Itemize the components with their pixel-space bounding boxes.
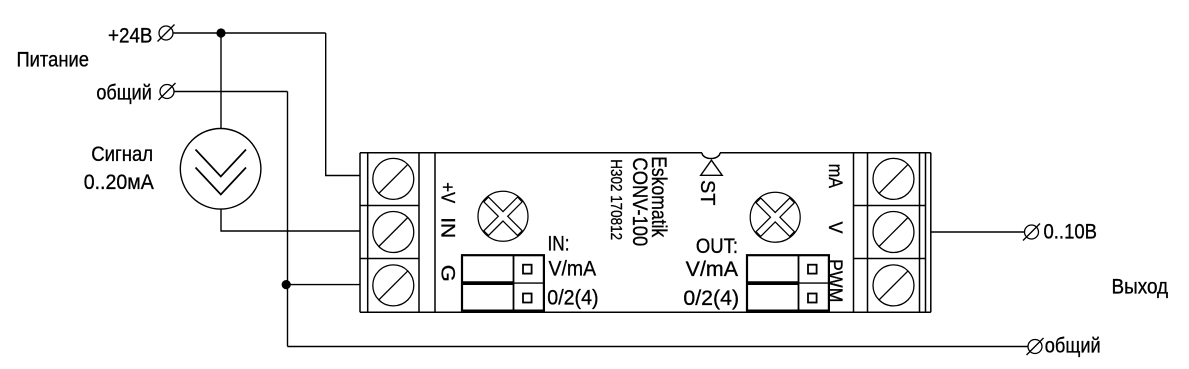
screw terminal +V bbox=[373, 158, 414, 199]
right terminal section lines bbox=[853, 153, 855, 312]
terminal symbol common bottom bbox=[1027, 338, 1044, 355]
svg-text:mA: mA bbox=[824, 164, 845, 189]
svg-text:общий: общий bbox=[96, 81, 151, 104]
svg-text:IN:: IN: bbox=[548, 233, 570, 256]
notch bbox=[702, 153, 720, 159]
svg-text:Сигнал: Сигнал bbox=[91, 143, 153, 166]
left terminal section lines bbox=[367, 153, 369, 312]
screw terminal PWM bbox=[873, 265, 914, 306]
wire bottom common bus bbox=[288, 346, 1029, 348]
node junction B bbox=[282, 280, 291, 289]
svg-text:+24В: +24В bbox=[108, 24, 153, 47]
svg-text:Питание: Питание bbox=[17, 49, 89, 72]
svg-text:CONV-100: CONV-100 bbox=[628, 158, 651, 247]
wire +24V horizontal bbox=[166, 32, 326, 34]
selector knob SA2 bbox=[750, 192, 800, 242]
screw terminal V bbox=[873, 212, 914, 253]
wire to G terminal bbox=[288, 284, 361, 286]
svg-text:V/mA: V/mA bbox=[686, 258, 738, 281]
wire common horizontal bbox=[166, 91, 288, 93]
svg-text:Выход: Выход bbox=[1112, 276, 1169, 299]
current source G1 0..20mA bbox=[180, 129, 261, 210]
DIP switch SW2 (OUT) bbox=[747, 255, 829, 310]
screw terminal mA bbox=[873, 158, 914, 199]
svg-text:IN: IN bbox=[437, 217, 458, 238]
wire +24V vertical to +V terminal bbox=[326, 33, 360, 176]
svg-text:OUT:: OUT: bbox=[696, 235, 738, 258]
screw terminal G bbox=[373, 265, 414, 306]
svg-text:H302 170812: H302 170812 bbox=[607, 159, 624, 240]
svg-text:0..20мА: 0..20мА bbox=[84, 171, 154, 194]
terminal symbol +24V bbox=[158, 25, 175, 42]
wire junction to source top bbox=[220, 33, 222, 129]
module U1 CONV-100 body bbox=[360, 153, 931, 312]
wire output 0..10V bbox=[931, 231, 1025, 233]
svg-text:0/2(4): 0/2(4) bbox=[547, 287, 598, 310]
selector knob SA1 bbox=[478, 191, 528, 241]
ST marker triangle bbox=[701, 160, 723, 175]
svg-text:ST: ST bbox=[696, 180, 718, 206]
wire source bottom to IN terminal bbox=[221, 209, 360, 231]
svg-text:0..10В: 0..10В bbox=[1044, 220, 1098, 243]
terminal symbol 0..10V bbox=[1023, 224, 1040, 241]
svg-text:0/2(4): 0/2(4) bbox=[683, 287, 739, 310]
svg-text:V: V bbox=[824, 222, 845, 234]
node junction A bbox=[216, 28, 225, 37]
wire common vertical bbox=[287, 92, 289, 347]
svg-text:общий: общий bbox=[1045, 334, 1101, 357]
svg-text:V/mA: V/mA bbox=[549, 258, 597, 281]
svg-text:G: G bbox=[437, 265, 458, 282]
DIP switch SW1 (IN) bbox=[462, 255, 544, 310]
svg-text:PWM: PWM bbox=[824, 259, 845, 303]
screw terminal IN bbox=[373, 212, 414, 253]
svg-text:+V: +V bbox=[437, 182, 458, 203]
terminal symbol common left bbox=[159, 83, 176, 100]
